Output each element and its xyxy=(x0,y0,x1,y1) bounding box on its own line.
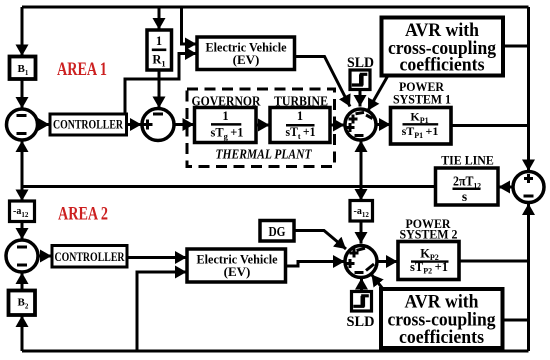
svg-text:1: 1 xyxy=(222,109,228,123)
block -a12 mid xyxy=(350,201,373,222)
block power system 1 transfer function xyxy=(391,108,452,145)
wire 1/R1 to sum2 xyxy=(158,70,161,108)
block SLD step source area1 xyxy=(350,70,370,90)
block CONTROLLER area2 xyxy=(52,246,127,268)
svg-text:coefficients: coefficients xyxy=(399,327,484,348)
summer sum3 xyxy=(345,109,376,140)
svg-text:CONTROLLER: CONTROLLER xyxy=(55,249,125,264)
wire sum1 to controller1 xyxy=(38,123,50,126)
block CONTROLLER area1 xyxy=(50,114,127,135)
summer sum4 xyxy=(6,240,38,272)
summer sum6 tie xyxy=(513,172,544,203)
block governor transfer function xyxy=(195,108,257,143)
wire controller1 branch to EV input2 xyxy=(125,54,197,116)
summer sum1 xyxy=(7,109,38,140)
wire df2 branch to EV2 input2 xyxy=(137,272,187,351)
block -a12 left xyxy=(10,201,35,222)
svg-text:s: s xyxy=(462,189,467,204)
wire SLD1 to sum3 xyxy=(359,90,362,107)
block turbine transfer function xyxy=(270,108,330,143)
svg-text:coefficients: coefficients xyxy=(400,55,485,76)
svg-text:sTt +1: sTt +1 xyxy=(286,125,316,141)
wire tie to sum3 bottom xyxy=(360,141,363,187)
wire B2 to sum4 xyxy=(21,273,24,292)
wire tie to -a12 left xyxy=(21,187,24,202)
wire right vertical bottom xyxy=(527,261,530,351)
svg-text:SYSTEM 2: SYSTEM 2 xyxy=(400,227,458,242)
wire AVR1 input from df1 line xyxy=(503,45,529,48)
block AVR area2 xyxy=(381,289,503,348)
svg-text:1: 1 xyxy=(156,34,162,48)
svg-text:SLD: SLD xyxy=(347,314,375,330)
wire DG to sum5 xyxy=(294,231,346,250)
wire sum5 to power system 2 xyxy=(377,260,398,263)
summer sum2 xyxy=(142,109,174,141)
wire tie line feedback horizontal xyxy=(22,185,436,188)
svg-text:(EV): (EV) xyxy=(224,264,251,279)
svg-text:CONTROLLER: CONTROLLER xyxy=(53,117,123,132)
wire B1 to sum1 xyxy=(21,79,24,109)
wire drop to B1 xyxy=(21,7,24,56)
wire df2 up to tie sum bottom xyxy=(527,204,530,262)
wire governor to turbine xyxy=(256,124,270,127)
wire -a12 mid to sum5 xyxy=(360,221,363,244)
wire PS2 output to right vertical xyxy=(460,260,529,263)
wire sum3 to power system 1 xyxy=(376,123,391,126)
wire bottom feedback df2 xyxy=(22,350,529,353)
wire SLD2 to sum5 xyxy=(360,278,363,292)
block DG xyxy=(260,221,294,242)
wire EV1 output to sum3 xyxy=(295,57,351,107)
svg-text:DG: DG xyxy=(269,224,286,239)
wire tie to sum1 bottom xyxy=(21,141,24,187)
wire top to 1/R1 xyxy=(158,7,161,30)
svg-text:TIE LINE: TIE LINE xyxy=(441,154,494,168)
wire controller2 to EV2 xyxy=(127,256,187,259)
block Electric Vehicle EV area1 xyxy=(197,37,295,70)
wire -a12 left to sum4 xyxy=(21,222,24,240)
wire AVR1 to sum3 xyxy=(368,76,388,111)
block AVR area1 xyxy=(382,18,504,76)
svg-text:sTg +1: sTg +1 xyxy=(211,125,244,141)
block 1/R1 xyxy=(147,30,172,70)
block B2 xyxy=(9,291,36,316)
block Electric Vehicle EV area2 xyxy=(187,249,286,282)
svg-text:AREA 2: AREA 2 xyxy=(58,204,108,225)
wire tie sum to tie line block xyxy=(499,186,513,189)
svg-text:SYSTEM 1: SYSTEM 1 xyxy=(393,92,451,107)
wire turbine to sum3 xyxy=(330,124,345,127)
svg-text:THERMAL PLANT: THERMAL PLANT xyxy=(216,148,313,163)
wire controller1 to sum2 xyxy=(127,123,142,126)
svg-text:AREA 1: AREA 1 xyxy=(57,59,107,80)
block B1 xyxy=(10,57,36,80)
wire EV2 output to sum5 xyxy=(286,262,345,267)
wire bottom to B2 xyxy=(21,316,24,352)
wire right vertical to tie sum top xyxy=(527,7,530,171)
summer sum5 xyxy=(345,246,377,278)
wire sum2 to governor xyxy=(174,123,194,126)
wire sum4 to controller2 xyxy=(38,255,52,258)
wire top feedback df1 xyxy=(22,6,529,9)
wire top branch to EV input1 xyxy=(182,7,197,44)
wire AVR2 input from df2 line xyxy=(503,319,529,322)
svg-text:(EV): (EV) xyxy=(233,52,260,67)
block tie line transfer function xyxy=(436,168,499,205)
wire tie to -a12 mid xyxy=(360,187,363,201)
box THERMAL PLANT dashed xyxy=(187,89,335,167)
wire PS1 output to right vertical xyxy=(450,124,529,127)
wire AVR2 to sum5 xyxy=(372,275,384,290)
block SLD step source area2 xyxy=(352,292,372,312)
svg-text:1: 1 xyxy=(297,109,303,123)
block power system 2 transfer function xyxy=(398,242,459,280)
